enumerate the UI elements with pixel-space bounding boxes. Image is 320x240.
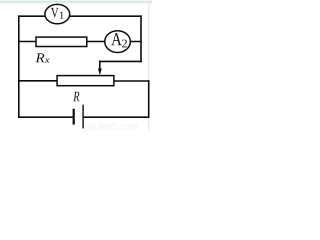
wire wiper horizontal xyxy=(99,60,142,62)
wire bottom left (to battery) xyxy=(18,116,72,118)
wire wiper vertical xyxy=(99,61,101,70)
voltmeter V1 xyxy=(45,4,70,23)
top shading band xyxy=(0,0,152,4)
label R (rheostat) xyxy=(73,92,79,102)
wire third row right xyxy=(113,80,149,82)
resistor Rx body xyxy=(36,37,87,46)
wire right upper vertical xyxy=(140,15,142,62)
wire left vertical xyxy=(18,15,20,118)
ammeter A2 xyxy=(105,31,131,53)
wire top (voltmeter branch) xyxy=(18,15,142,17)
wire bottom right (from battery) xyxy=(83,116,149,118)
wire second row (Rx-A2 branch) xyxy=(18,41,142,43)
battery negative plate (short thick) xyxy=(73,109,75,125)
rheostat R body xyxy=(57,76,114,86)
arrowhead onto rheostat xyxy=(98,69,102,76)
faint table border right xyxy=(148,2,149,131)
wire third row left xyxy=(18,80,58,82)
label Rx xyxy=(35,53,49,62)
wire right lower vertical xyxy=(148,80,150,118)
watermark gaofen5.com xyxy=(85,123,137,132)
battery positive plate (long thin) xyxy=(82,105,83,129)
